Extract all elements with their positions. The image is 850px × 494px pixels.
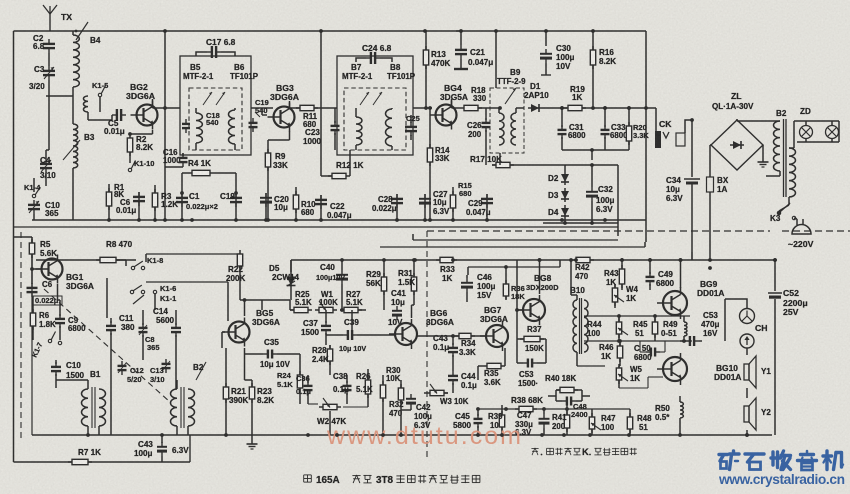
- logo crystalradio: [719, 453, 728, 456]
- wire: [380, 246, 645, 248]
- potentiometer W5: [618, 364, 620, 368]
- resistor R30: [382, 381, 384, 385]
- resistor R31: [413, 273, 415, 277]
- resistor R39: [501, 411, 503, 415]
- capacitor C30: [545, 49, 547, 54]
- wire: [425, 30, 426, 32]
- wire: [289, 101, 291, 108]
- transistor BG3: [274, 107, 295, 128]
- inductor B8: [386, 109, 393, 146]
- wire: [32, 434, 772, 436]
- node TX antenna: [49, 14, 51, 31]
- wire BG8 base feed: [516, 260, 518, 339]
- wire: [221, 332, 223, 348]
- resistor R18: [460, 107, 464, 109]
- transistor BG4: [436, 105, 457, 126]
- switch K1-8: [131, 266, 134, 269]
- potentiometer R47: [591, 413, 593, 417]
- wire: [152, 99, 154, 108]
- wire linkage: [427, 230, 770, 232]
- capacitor C12: [121, 361, 123, 366]
- switch K1-5: [98, 93, 101, 96]
- wire: [146, 253, 240, 255]
- wire: [48, 53, 50, 66]
- capacitor C6b: [31, 283, 33, 288]
- switch K1-10: [128, 168, 131, 171]
- resistor R29: [383, 273, 385, 277]
- wire: [456, 30, 461, 32]
- capacitor C5: [112, 114, 117, 116]
- wire bus: [32, 219, 646, 221]
- capacitor C29: [486, 194, 488, 199]
- capacitor C9: [59, 314, 61, 319]
- inductor B3: [73, 124, 78, 168]
- resistor R22: [239, 250, 241, 254]
- transformer B7 B8 box: [337, 56, 413, 155]
- wire: [31, 254, 33, 284]
- resistor R32: [400, 384, 402, 388]
- wire: [146, 281, 228, 283]
- switch B4: [76, 22, 88, 40]
- wire: [14, 461, 191, 463]
- wire: [691, 252, 693, 260]
- wire: [240, 299, 290, 301]
- capacitor C4: [45, 159, 47, 164]
- transistor BG7: [486, 325, 508, 347]
- capacitor C10 365: [33, 200, 35, 205]
- capacitor C48c: [562, 400, 567, 402]
- capacitor C26: [485, 118, 487, 123]
- wire: [164, 31, 166, 220]
- wire: [584, 315, 690, 317]
- capacitor C8: [142, 323, 144, 328]
- transistor BG6: [395, 323, 417, 345]
- resistor R15: [452, 191, 454, 195]
- wire: [14, 30, 647, 32]
- transistor BG10 out: [663, 357, 687, 381]
- wire C46 feed: [468, 266, 560, 268]
- transistor BG8: [523, 299, 545, 321]
- wire: [689, 315, 691, 317]
- wire: [495, 31, 497, 88]
- transformer B9 box: [490, 88, 524, 153]
- transformer B5 B6 box: [180, 56, 251, 155]
- capacitor C46: [466, 278, 468, 283]
- resistor R6: [32, 309, 34, 313]
- capacitor C32: [591, 187, 593, 192]
- resistor R5: [31, 239, 33, 243]
- transistor BG2: [137, 105, 158, 126]
- switch B2 arrow: [196, 362, 206, 380]
- wire: [33, 178, 35, 192]
- inductor B6: [229, 110, 236, 144]
- trim arrows: [360, 92, 369, 105]
- capacitor C31: [561, 125, 563, 130]
- capacitor C42: [410, 394, 412, 399]
- potentiometer W3: [426, 392, 430, 394]
- node dots: [107, 218, 111, 222]
- wire trim arrow: [63, 140, 80, 160]
- resistor R26: [367, 376, 369, 380]
- resistor R36: [505, 280, 507, 284]
- transformer B7 B8 inner: [344, 88, 406, 150]
- capacitor C19a: [252, 118, 254, 123]
- wire: [746, 388, 748, 398]
- capacitor C28: [396, 194, 398, 199]
- resistor R34: [455, 335, 459, 337]
- inductor B9a: [499, 113, 504, 145]
- resistor R4: [188, 172, 192, 174]
- wire: [13, 31, 15, 462]
- capacitor C21: [460, 45, 462, 50]
- potentiometer W2: [319, 406, 323, 408]
- wire: [545, 31, 547, 46]
- wire: [31, 237, 33, 435]
- resistor R43: [621, 265, 623, 269]
- wire: [289, 131, 291, 140]
- wire: [413, 239, 618, 241]
- resistor R10: [295, 191, 297, 195]
- wire: [646, 107, 656, 109]
- inductor L: [83, 96, 88, 112]
- transformer B5 B6 inner: [189, 88, 242, 150]
- resistor R24: [299, 371, 301, 375]
- ground: [762, 145, 764, 158]
- diode D3: [564, 188, 566, 202]
- inductor B5: [196, 113, 202, 143]
- diode D1 2AP10: [528, 107, 542, 109]
- wire: [539, 260, 541, 294]
- wire: [576, 352, 578, 366]
- wire: [57, 284, 59, 300]
- wire: [411, 305, 413, 318]
- switch K1-4: [32, 194, 35, 197]
- resistor R2: [129, 134, 131, 138]
- potentiometer W1: [315, 309, 319, 311]
- note switch K: [532, 448, 535, 455]
- noise: [0, 0, 1, 1]
- diode D4: [564, 205, 566, 219]
- wire linkage: [782, 230, 850, 232]
- capacitor C1: [181, 193, 183, 198]
- resistor R16: [592, 46, 594, 50]
- transistor BG1: [42, 259, 63, 280]
- wire: [320, 31, 322, 172]
- capacitor C18: [185, 119, 187, 124]
- wire bus B+: [291, 259, 576, 261]
- wire: [492, 107, 499, 109]
- capacitor C3: [48, 66, 50, 71]
- resistor R21: [225, 383, 227, 387]
- jack CH: [740, 334, 754, 348]
- capacitor C20: [265, 193, 267, 198]
- capacitor C13: [165, 359, 167, 364]
- diode D2: [564, 171, 566, 185]
- wire: [645, 31, 647, 242]
- wire: [244, 300, 246, 316]
- inductor B7: [356, 117, 362, 145]
- wire: [165, 166, 183, 168]
- wire: [48, 80, 50, 96]
- transistor BG5: [229, 322, 250, 343]
- jack earphone: [740, 309, 755, 324]
- switch K1-6: [130, 290, 133, 293]
- resistor R35: [483, 365, 487, 367]
- resistor R41: [566, 411, 568, 415]
- resistor R8: [96, 259, 100, 261]
- wire: [699, 340, 702, 342]
- resistor R14: [429, 144, 431, 148]
- wire: [565, 164, 618, 166]
- wire: [788, 197, 790, 205]
- wire bus: [14, 226, 619, 228]
- capacitor C14: [175, 323, 177, 328]
- resistor R23: [251, 383, 253, 387]
- wire: [605, 340, 692, 342]
- resistor R11: [296, 107, 300, 109]
- wire: [329, 411, 331, 435]
- switch K1-1: [153, 290, 156, 293]
- wire: [99, 97, 101, 112]
- capacitor C19: [235, 193, 237, 198]
- resistor R19: [564, 107, 568, 109]
- resistor R48: [629, 413, 631, 417]
- wire: [152, 130, 154, 134]
- wire linkage: [44, 289, 170, 402]
- resistor R25: [290, 309, 294, 311]
- resistor R9: [267, 149, 269, 153]
- capacitor C10b: [55, 362, 57, 367]
- wire: [451, 99, 453, 108]
- wire linkage: [20, 232, 22, 440]
- resistor R28: [329, 345, 331, 349]
- wire: [87, 380, 89, 389]
- capacitor C49: [649, 272, 651, 277]
- transistor BG9 out: [663, 291, 687, 315]
- capacitor C44: [452, 371, 454, 376]
- inductor B9b: [511, 113, 516, 145]
- speaker Y2: [744, 406, 749, 422]
- wire: [680, 260, 682, 288]
- speaker Y1: [744, 364, 749, 380]
- potentiometer W4: [614, 284, 616, 288]
- wire: [779, 171, 781, 176]
- resistor R1: [108, 188, 110, 192]
- wire: [562, 149, 629, 151]
- wire: [46, 95, 73, 97]
- wire: [181, 173, 183, 193]
- resistor R42: [572, 259, 576, 261]
- wire: [576, 295, 578, 300]
- capacitor C33: [604, 125, 606, 130]
- caption figure: [304, 474, 312, 476]
- resistor R27: [340, 309, 344, 311]
- diode D5 zener: [290, 274, 292, 288]
- trim arrows: [203, 92, 212, 105]
- capacitor C11: [110, 321, 112, 326]
- capacitor C2: [48, 39, 50, 44]
- capacitor C38: [346, 381, 348, 386]
- capacitor C36: [307, 381, 309, 386]
- capacitor C40: [341, 270, 343, 275]
- resistor R20: [628, 122, 630, 126]
- capacitor C22: [320, 195, 322, 200]
- wire: [737, 120, 780, 122]
- fuse BX: [707, 177, 714, 192]
- wire: [251, 107, 273, 109]
- capacitor C23: [334, 121, 336, 126]
- inductor B4: [73, 35, 79, 87]
- resistor R3: [154, 189, 156, 193]
- wire: [289, 300, 291, 310]
- trim arrow: [505, 88, 516, 104]
- capacitor C6: [138, 192, 140, 197]
- capacitor C35: [263, 353, 268, 355]
- wire: [543, 222, 618, 224]
- resistor R33: [436, 259, 440, 261]
- capacitor C27: [424, 194, 426, 199]
- wire linkage: [426, 231, 428, 458]
- resistor R13: [425, 46, 427, 50]
- ground: [251, 440, 253, 444]
